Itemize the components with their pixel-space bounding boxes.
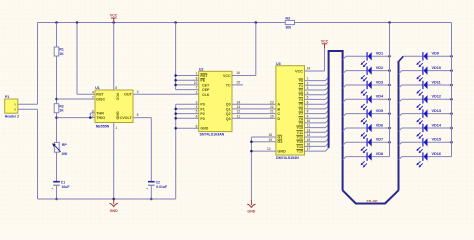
svg-text:VD9: VD9 [432, 52, 439, 56]
diode VD4 LED [361, 95, 384, 111]
diode VD3 LED [361, 80, 383, 96]
svg-text:Y12: Y12 [297, 136, 303, 140]
svg-text:C: C [277, 112, 280, 116]
svg-text:1K: 1K [59, 52, 64, 56]
wire VD15 anode to line E [428, 141, 452, 143]
svg-text:3: 3 [137, 90, 139, 94]
node VD5 anode junction [388, 112, 391, 115]
wire C1 to GND rail [56, 186, 58, 199]
wire VD11 anode to line E [428, 84, 452, 86]
wire bus exit to VD7 [343, 142, 346, 145]
wire VCC top rail (right of R3) [295, 22, 452, 24]
svg-text:Y4: Y4 [299, 98, 303, 102]
svg-text:C2: C2 [156, 180, 160, 184]
wire U2 TC stub [232, 84, 243, 86]
svg-text:Y2: Y2 [299, 89, 303, 93]
svg-text:VD15: VD15 [432, 138, 442, 142]
svg-text:Y1: Y1 [299, 84, 303, 88]
svg-text:PE: PE [200, 79, 205, 83]
diode VD5 LED [361, 109, 383, 125]
wire U3 Y6 output to bus [305, 108, 326, 110]
svg-text:Y5: Y5 [299, 103, 303, 107]
svg-text:17: 17 [307, 147, 311, 151]
wire VD6 anode to line D [372, 127, 390, 129]
svg-text:14: 14 [237, 100, 241, 104]
svg-text:G2: G2 [277, 140, 282, 144]
svg-text:VD16: VD16 [432, 152, 442, 156]
wire bus exit to VD9 [403, 55, 422, 57]
wire VCC rail to R1 [56, 23, 58, 48]
svg-text:U3: U3 [276, 62, 281, 66]
wire bus exit to VD16 [399, 157, 402, 160]
wire U2 enable tie line [175, 23, 177, 90]
wire U3 Y2 output to bus [305, 89, 326, 91]
node VD4 anode junction [388, 98, 391, 101]
node VD11 anode junction [450, 84, 453, 87]
node junction RST drop [76, 21, 79, 24]
svg-text:7: 7 [92, 95, 94, 99]
node VD9 anode junction [450, 55, 453, 58]
wire bus exit to VD5 [343, 114, 346, 117]
wire bus exit to VD14 [399, 128, 402, 131]
wire anode line D [389, 23, 391, 157]
wire CET [176, 84, 199, 86]
node junction R1 top [55, 21, 58, 24]
svg-text:A: A [277, 103, 280, 107]
wire GND bottom rail [38, 198, 176, 200]
svg-text:VCC: VCC [110, 14, 118, 18]
node junction U2 enable tie [174, 21, 177, 24]
svg-text:VCC: VCC [116, 93, 120, 101]
svg-text:VD7: VD7 [376, 138, 383, 142]
svg-text:GND: GND [116, 111, 120, 120]
svg-text:VD13: VD13 [432, 109, 442, 113]
svg-text:2: 2 [196, 90, 198, 94]
wire VD2 anode to line D [372, 70, 390, 72]
svg-text:P1: P1 [5, 95, 9, 99]
node VD13 anode junction [450, 112, 453, 115]
wire bus exit to VD13 [399, 114, 402, 117]
wire VD13 anode to line E [428, 113, 452, 115]
power VCC symbol (main rail) [110, 14, 118, 23]
wire bus exit to VD8 [343, 157, 346, 160]
svg-text:+: + [146, 187, 148, 191]
svg-text:VD6: VD6 [376, 123, 383, 127]
wire bus exit to VD2 [343, 71, 346, 74]
svg-text:Y15: Y15 [297, 150, 303, 154]
wire U3 Y8 output to bus [305, 117, 326, 119]
wire VD10 anode to line E [428, 70, 452, 72]
wire bus exit to VD11 [399, 85, 402, 88]
svg-text:R2: R2 [59, 104, 63, 108]
wire U3 Y4 output to bus [305, 98, 326, 100]
wire bus line C top corner [399, 56, 404, 61]
svg-text:RST: RST [200, 74, 208, 78]
wire U2 P-inputs tie to GND [175, 104, 177, 199]
wire U3 Y9 output to bus [305, 122, 326, 124]
diode VD10 LED [416, 66, 441, 82]
node VD2 anode junction [388, 69, 391, 72]
svg-text:Y7: Y7 [299, 112, 303, 116]
svg-text:Y0: Y0 [299, 79, 303, 83]
svg-text:24: 24 [307, 67, 311, 71]
wire U3 Y7 output to bus [305, 113, 326, 115]
node VD3 anode junction [388, 84, 391, 87]
svg-text:Y9: Y9 [299, 121, 303, 125]
svg-text:DISC: DISC [96, 97, 105, 101]
node TRIG junction [55, 116, 58, 119]
wire U1 GND pin1 [113, 123, 115, 200]
svg-text:1: 1 [115, 126, 117, 130]
svg-text:Y8: Y8 [299, 117, 303, 121]
op-amp/timer U1 NE555N [92, 86, 139, 130]
wire VD1 anode to line D [372, 55, 390, 57]
svg-text:R1: R1 [59, 48, 63, 52]
svg-text:13: 13 [237, 105, 241, 109]
resistor R2 1K [54, 104, 64, 113]
wire RSTb [176, 75, 199, 77]
svg-text:P0: P0 [200, 103, 204, 107]
wire TRIG to U1 [57, 117, 96, 119]
wire G1b [251, 136, 276, 138]
svg-text:B: B [277, 107, 280, 111]
connector P1 Header 2 [5, 95, 19, 119]
diode VD6 LED [361, 123, 383, 139]
svg-text:VD14: VD14 [432, 123, 442, 127]
diode VD8 LED [361, 152, 383, 168]
wire R2 to TRIG node [56, 113, 58, 143]
wire VD4 anode to line D [372, 98, 390, 100]
svg-text:TRIG: TRIG [96, 116, 105, 120]
svg-text:P1: P1 [200, 107, 204, 111]
svg-text:GND: GND [110, 209, 118, 213]
wire RP to C1 [56, 152, 58, 181]
svg-text:VD2: VD2 [376, 66, 383, 70]
diode VD15 LED [416, 138, 441, 154]
wire bus line B (left LED column feed) [342, 51, 344, 191]
capacitor C1 10uF [51, 180, 69, 191]
wire P2 [176, 113, 199, 115]
wire VD3 anode to line D [372, 84, 390, 86]
wire DISC to U1 [57, 98, 96, 100]
svg-text:Y14: Y14 [297, 145, 303, 149]
svg-text:RP: RP [62, 143, 67, 147]
node VD7 anode junction [388, 141, 391, 144]
svg-text:2: 2 [92, 114, 94, 118]
svg-text:VD3: VD3 [376, 80, 383, 84]
svg-text:22: 22 [270, 105, 274, 109]
diode VD11 LED [416, 80, 440, 96]
node C2 gnd junction [150, 198, 153, 201]
node THR/TRIG junction [89, 116, 92, 119]
wire bus top bridge [328, 50, 344, 52]
svg-text:13: 13 [307, 128, 311, 132]
wire bus line C (right LED column feed) [398, 61, 400, 191]
svg-text:Q1: Q1 [226, 107, 231, 111]
wire VD12 anode to line E [428, 98, 452, 100]
wire P1 pin2 to GND rail [18, 108, 38, 110]
diode VD12 LED [416, 95, 441, 111]
wire G2b [251, 141, 276, 143]
svg-text:CET: CET [202, 83, 210, 87]
svg-text:23: 23 [270, 100, 274, 104]
svg-text:THR: THR [96, 111, 104, 115]
wire P0 [176, 103, 199, 105]
ground symbol (decoder) [247, 200, 256, 214]
node DISC junction [55, 98, 58, 101]
ground symbol (left) [110, 199, 119, 213]
svg-text:Header 2: Header 2 [5, 115, 19, 119]
wire bus exit to VD15 [399, 142, 402, 145]
diode VD13 LED [416, 109, 441, 125]
wire VD14 anode to line E [428, 127, 452, 129]
svg-text:12: 12 [237, 110, 241, 114]
svg-text:+: + [51, 187, 53, 191]
node VD14 anode junction [450, 127, 453, 130]
wire U2 Q3 to U3 D [232, 117, 276, 119]
svg-text:12: 12 [267, 147, 271, 151]
svg-text:VCC: VCC [295, 70, 303, 74]
wire C2 to GND rail [150, 186, 152, 199]
svg-text:D: D [277, 117, 280, 121]
wire VD9 anode to line E [428, 55, 452, 57]
svg-text:GND: GND [200, 127, 208, 131]
wire U1 VCC pin8 [113, 23, 115, 91]
decoder U3 DM74LS154N [267, 62, 310, 160]
svg-text:R3: R3 [286, 17, 290, 21]
svg-text:DM74LS154N: DM74LS154N [276, 156, 299, 160]
wire U3 Y5 output to bus [305, 103, 326, 105]
svg-text:Y10: Y10 [297, 126, 303, 130]
diode VD14 LED [416, 123, 441, 139]
svg-text:Q0: Q0 [226, 103, 231, 107]
wire U3 Y15 output to bus [305, 150, 326, 152]
wire U3 Y14 output to bus [305, 145, 326, 147]
wire U3 VCC pin24 [305, 70, 325, 72]
wire P1 [176, 108, 199, 110]
svg-text:NE555N: NE555N [96, 124, 110, 128]
wire bus exit to VD10 [399, 71, 402, 74]
wire U3 GND pin12 [251, 150, 276, 152]
svg-text:Y13: Y13 [297, 140, 303, 144]
svg-text:VD8: VD8 [376, 152, 383, 156]
svg-text:VD5: VD5 [376, 109, 383, 113]
wire U3 Y12 output to bus [305, 136, 326, 138]
wire U1 OUT to U2 CLK [133, 93, 199, 95]
svg-text:20: 20 [270, 114, 274, 118]
wire R1 to DISC node [56, 56, 58, 104]
wire U3 Y3 output to bus [305, 94, 326, 96]
node VD12 anode junction [450, 98, 453, 101]
svg-text:RST: RST [96, 93, 104, 97]
svg-text:300: 300 [286, 26, 292, 30]
wire U2 GND pin8 [176, 127, 199, 129]
wire VD7 anode to line D [372, 141, 390, 143]
svg-text:6: 6 [92, 109, 94, 113]
node U1 gnd junction [112, 198, 115, 201]
wire bus line A (decoder side) [328, 51, 330, 148]
svg-text:15: 15 [236, 80, 240, 84]
svg-text:1K: 1K [59, 109, 64, 113]
svg-text:VCC: VCC [223, 74, 231, 78]
wire U3 G1 G2 GND tie [250, 137, 252, 200]
wire RST to VCC rail [76, 23, 78, 95]
svg-text:10K: 10K [61, 152, 68, 156]
svg-text:8: 8 [115, 86, 117, 90]
svg-text:GND: GND [247, 210, 255, 214]
node VD15 anode junction [450, 141, 453, 144]
resistor R1 1K [54, 47, 64, 56]
svg-text:GND: GND [277, 150, 286, 154]
wire CEP [176, 89, 199, 91]
wire bus exit to VD12 [399, 99, 402, 102]
wire U3 Y13 output to bus [305, 141, 326, 143]
node junction U1 VCC drop [112, 21, 115, 24]
wire U2 VCC pin16 [232, 75, 256, 77]
svg-text:VD11: VD11 [432, 80, 441, 84]
wire bus exit to VD1 [343, 56, 346, 59]
wire U2 Q2 to U3 C [232, 113, 276, 115]
svg-text:21: 21 [270, 110, 274, 114]
wire U1 CVOLT to C2 [133, 117, 151, 119]
svg-text:Q2: Q2 [226, 112, 231, 116]
wire U3 Y10 output to bus [305, 127, 326, 129]
wire VD5 anode to line D [372, 113, 390, 115]
diode VD9 LED [416, 52, 438, 67]
wire VD16 anode to line E [428, 156, 452, 158]
svg-text:C1: C1 [61, 180, 65, 184]
node C1 gnd junction [55, 198, 58, 201]
diode VD2 LED [361, 66, 383, 82]
svg-text:G1: G1 [277, 136, 282, 140]
wire VCC top rail (left of R3) [38, 22, 286, 24]
svg-text:Y11: Y11 [297, 131, 303, 135]
node VD10 anode junction [450, 69, 453, 72]
potentiometer RP 10K [52, 142, 68, 156]
wire U2 Q0 to U3 A [232, 103, 276, 105]
svg-text:SN74LS163AN: SN74LS163AN [200, 133, 225, 137]
wire anode line E [451, 23, 453, 157]
svg-text:0.01uF: 0.01uF [156, 185, 167, 189]
node junction anode bus D [388, 21, 391, 24]
wire bus exit to VD4 [343, 99, 346, 102]
svg-text:Y6: Y6 [299, 107, 303, 111]
svg-text:11: 11 [237, 114, 241, 118]
wire PEb [176, 79, 199, 81]
svg-text:16: 16 [236, 71, 240, 75]
svg-text:STL-MF: STL-MF [367, 199, 378, 203]
svg-text:P3: P3 [200, 117, 204, 121]
wire U2 Q1 to U3 B [232, 108, 276, 110]
svg-text:Q3: Q3 [226, 117, 231, 121]
svg-text:TC: TC [226, 83, 231, 87]
diode VD1 LED [361, 52, 383, 67]
svg-text:VCC: VCC [321, 40, 329, 44]
wire bus exit to VD6 [343, 128, 346, 131]
svg-text:P2: P2 [200, 112, 204, 116]
capacitor C2 0.01uF [146, 180, 167, 191]
svg-text:CEP: CEP [202, 88, 210, 92]
svg-text:CLK: CLK [202, 93, 210, 97]
wire U3 Y1 output to bus [305, 84, 326, 86]
svg-text:10uF: 10uF [62, 185, 70, 189]
svg-text:VD1: VD1 [376, 52, 383, 56]
diode VD7 LED [361, 138, 383, 154]
power VCC symbol (decoder) [321, 40, 329, 49]
wire U3 Y0 output to bus [305, 80, 326, 82]
wire bus bottom curve [343, 190, 399, 203]
svg-text:Y3: Y3 [299, 93, 303, 97]
counter U2 SN74LS163AN [194, 67, 240, 136]
svg-text:U2: U2 [199, 67, 204, 71]
node VD1 anode junction [388, 55, 391, 58]
svg-text:OUT: OUT [124, 93, 133, 97]
svg-text:VD12: VD12 [432, 95, 442, 99]
node junction U2 VCC drop [255, 21, 257, 24]
wire THR jog [90, 112, 95, 114]
resistor R3 300 [285, 17, 294, 30]
wire bus exit to VD3 [343, 85, 346, 88]
svg-text:CVOLT: CVOLT [120, 116, 133, 120]
node VD6 anode junction [388, 127, 391, 130]
svg-text:VD4: VD4 [376, 95, 384, 99]
svg-text:U1: U1 [95, 86, 100, 90]
svg-text:VD10: VD10 [432, 66, 442, 70]
wire U3 Y11 output to bus [305, 131, 326, 133]
wire P3 [176, 117, 199, 119]
svg-text:5: 5 [137, 113, 139, 117]
wire VD8 anode to line D [372, 156, 390, 158]
diode VD16 LED [416, 152, 441, 168]
wire P1 pin1 to VCC rail [18, 103, 38, 105]
